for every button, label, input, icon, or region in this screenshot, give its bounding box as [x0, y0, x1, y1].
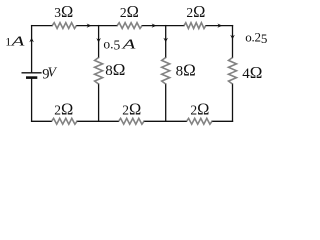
resistor 2ohm bottom-left — [52, 118, 78, 124]
wire top between R2 and R3 — [142, 25, 184, 27]
resistor 2ohm top-middle — [117, 23, 142, 29]
svg-text:o.5: o.5 — [103, 37, 120, 53]
arrow current right after 3ohm — [87, 24, 92, 28]
arrow current down right branch — [230, 35, 235, 40]
wire right upper — [232, 26, 234, 58]
wire bottom-right segment — [212, 120, 233, 122]
wire bottom between B1 and B2 — [77, 120, 119, 122]
wire left lower (from battery) — [31, 78, 33, 121]
wire top-left segment — [32, 25, 53, 27]
svg-text:A: A — [10, 33, 24, 48]
resistor 2ohm top-right — [184, 23, 206, 29]
arrow current down 0.5A — [96, 38, 101, 43]
wire left upper (to battery) — [31, 26, 33, 73]
resistor 4ohm — [229, 58, 237, 85]
svg-text:2Ω: 2Ω — [190, 99, 209, 118]
battery V1 long plate — [22, 72, 42, 74]
svg-text:2Ω: 2Ω — [120, 2, 139, 21]
svg-text:1: 1 — [5, 35, 11, 49]
arrow current right after 2ohm middle — [152, 24, 157, 28]
arrow current up 1A — [29, 38, 34, 43]
resistor 2ohm bottom-right — [187, 118, 213, 124]
wire bottom between B2 and B3 — [144, 120, 187, 122]
wire branch2 upper — [165, 26, 167, 58]
resistor 3ohm top-left — [52, 23, 76, 29]
wire branch1 lower — [98, 84, 100, 121]
svg-text:2Ω: 2Ω — [54, 99, 73, 118]
svg-text:8Ω: 8Ω — [176, 60, 196, 79]
wire top between R1 and R2 — [77, 25, 118, 27]
wire branch2 lower — [165, 84, 167, 121]
svg-text:V: V — [48, 65, 58, 80]
svg-text:2Ω: 2Ω — [122, 99, 141, 118]
resistor 2ohm bottom-middle — [119, 118, 145, 124]
wire right lower — [232, 84, 234, 121]
svg-text:A: A — [121, 36, 135, 51]
svg-text:4Ω: 4Ω — [242, 63, 262, 82]
wire bottom-left segment — [32, 120, 52, 122]
battery V1 short plate — [26, 76, 37, 79]
svg-text:2Ω: 2Ω — [186, 2, 205, 21]
resistor 8ohm right — [162, 58, 170, 85]
arrow current down branch2 — [163, 38, 168, 43]
svg-text:o.25: o.25 — [245, 29, 267, 46]
arrow current right after 2ohm top-right — [217, 24, 222, 28]
wire top-right segment — [206, 25, 233, 27]
svg-text:8Ω: 8Ω — [105, 60, 125, 79]
resistor 8ohm left — [95, 58, 103, 85]
svg-text:3Ω: 3Ω — [54, 2, 73, 21]
wire branch1 upper — [98, 26, 100, 58]
